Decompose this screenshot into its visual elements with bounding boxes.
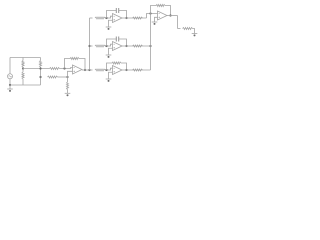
wire R8 to U2 summing node [105,16,113,18]
wire R5 to divider node [58,76,68,78]
wire R7 lower lead [67,90,69,94]
voltage source V1 [8,74,13,79]
wire U1 feedback left [65,59,71,69]
op-amp U4 [113,66,123,75]
node summing junction [149,12,151,14]
node U1 feedback junction [63,67,65,69]
resistor R7 to ground [67,82,69,90]
wire bus to R8 [90,17,93,19]
wire U5 non-inverting stub [155,17,158,22]
ground at U2 [108,26,110,28]
wire mid rail to R4 [23,68,50,70]
ground at U5 [154,21,156,23]
node bus tap to R9 [88,45,90,47]
ground below R7 [67,92,69,94]
ground at U4 [108,78,110,80]
capacitor C2 feedback of U3 [115,37,117,42]
op-amp U2 [113,14,123,23]
node U2 output junction [125,17,127,19]
wire U4 non-inverting stub [109,72,113,79]
wire top to R1 [22,58,24,61]
resistor R11 feedback of U4 [112,62,121,64]
resistor R12 [133,17,143,19]
wire output down [177,16,179,29]
node U5 output junction [169,14,171,16]
op-amp U1 [73,65,83,74]
wire U4 feedback left [107,63,113,70]
node feedback bus tap mid [149,45,151,47]
wire to load resistor [178,28,181,30]
resistor R4 [50,68,60,70]
wire U2 non-inverting stub [109,20,113,27]
wire R2 down to bottom rail [40,67,42,85]
wire feedback bus vertical [150,14,152,71]
node tap on R2 branch [39,76,41,78]
resistor R13 [133,45,143,47]
wire jog up to summing wire [147,14,158,19]
wire U3 feedback left [107,39,117,46]
wire distribution bus vertical [89,18,91,70]
wire R10 to U4 summing node [105,68,113,70]
wire U1 output [82,69,90,71]
resistor R1 [22,61,24,68]
ground at U3 [108,54,110,56]
wire load to ground [193,29,195,34]
wire U3 feedback right [119,39,127,46]
wire U5 output [167,15,178,17]
node R2 mid junction [39,67,41,69]
wire top rail of source network [10,57,41,59]
node U3 summing junction [105,45,107,47]
wire top to R2 [40,58,42,61]
op-amp U5 [158,11,168,20]
wire R3 upper lead [22,69,24,73]
wire R1 to mid rail [22,67,24,69]
node bottom-left junction [9,84,11,86]
wire tap to R5 [41,76,43,78]
wire bottom rail of source network [10,84,41,86]
resistor R16 load [183,28,193,30]
resistor R3 [22,72,24,79]
wire U5 feedback right [165,6,171,16]
node divider junction [66,76,68,78]
wire R4 to U1 summing node [60,67,73,70]
node U1 output junction [84,69,86,71]
resistor R10 [95,69,105,71]
resistor R2 [40,61,42,68]
wire R3 to bottom rail [22,79,24,85]
wire bus to R9 [90,45,93,47]
wire R9 to U3 summing node [105,44,113,46]
wire below source [9,79,11,85]
wire U3 output [122,45,151,47]
wire U3 non-inverting stub [109,48,113,55]
resistor R8 [95,17,105,19]
node U2 summing junction [105,17,107,19]
node distribution bus top [88,69,90,71]
wire U4 feedback right [121,63,127,70]
capacitor C1 feedback of U2 [115,8,117,13]
wire left rail above source [9,58,11,74]
wire U4 output [122,69,151,71]
wire U1 feedback right [79,59,85,71]
wire U1 non-inverting stub [68,71,73,82]
node U3 output junction [125,45,127,47]
resistor R6 feedback of U1 [70,58,79,60]
resistor R5 [48,76,58,78]
wire bus to R10 [90,69,93,71]
resistor R14 [133,69,143,71]
resistor R15 feedback of U5 [156,5,165,7]
wire U5 feedback left [151,6,157,14]
op-amp U3 [113,42,123,51]
wire U2 feedback left [107,11,117,19]
node U4 output junction [125,69,127,71]
wire U2 feedback right [119,11,127,19]
resistor R9 [95,45,105,47]
wire U2 output [122,17,147,19]
ground at load [194,33,196,35]
node U4 summing junction [105,69,107,71]
node mid rail at R1 [22,67,24,69]
ground below source [9,85,11,89]
